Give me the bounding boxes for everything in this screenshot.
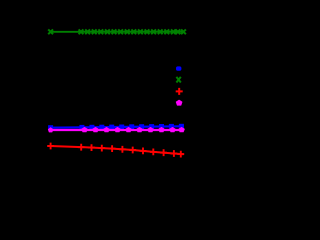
- green x markers: [48, 29, 186, 34]
- legend marker green x: [176, 77, 180, 83]
- chart canvas: [0, 0, 208, 208]
- magenta pentagon markers: [48, 127, 184, 132]
- blue loss line: [51, 126, 184, 127]
- blue square markers: [48, 124, 184, 130]
- magenta line: [51, 129, 184, 131]
- red loss line: [51, 146, 184, 154]
- legend marker magenta pentagon: [176, 100, 182, 105]
- green accuracy line: [51, 31, 185, 33]
- legend marker blue square: [176, 66, 181, 70]
- legend marker red plus: [176, 88, 183, 95]
- red plus markers: [47, 143, 184, 158]
